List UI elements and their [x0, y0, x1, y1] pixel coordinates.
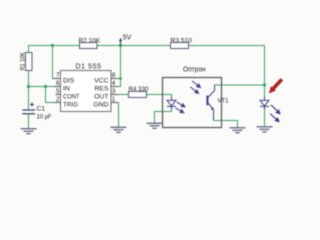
svg-text:3: 3: [112, 88, 116, 95]
node: rail junction at pin7 drop: [51, 44, 54, 47]
wire: R2 right to 5V junction to R3 left: [97, 45, 171, 47]
resistor R4: [129, 86, 149, 98]
wire: C1 bottom to ground: [28, 114, 30, 129]
ground under emitter: [230, 128, 246, 133]
wire: 5V drop to VCC pin8 and RES pin4: [111, 46, 121, 87]
node: R1 bottom junction: [27, 85, 30, 88]
resistor R1: [20, 51, 32, 70]
555 left pin stubs: [54, 79, 61, 103]
svg-text:DIS: DIS: [63, 78, 75, 85]
svg-text:4: 4: [112, 80, 116, 87]
svg-text:5: 5: [56, 88, 60, 95]
resistor R2: [79, 38, 101, 49]
555 timer D1 body: [61, 64, 112, 112]
svg-text:C1: C1: [37, 106, 46, 113]
555 right pin stubs: [111, 79, 118, 103]
LED indicator (pointed by red arrow): [260, 96, 269, 109]
ground under 555 GND pin: [111, 127, 127, 132]
wire: pin7 drop from rail: [53, 46, 61, 79]
svg-text:R4 330: R4 330: [129, 86, 149, 93]
wire: R1 bottom down through node to C1: [28, 71, 30, 111]
wire: optocoupler LED cathode to outside ground: [155, 110, 172, 124]
svg-text:OUT: OUT: [94, 94, 108, 101]
node: pin6/pin2 junction: [44, 85, 47, 88]
svg-text:Оптрон: Оптрон: [183, 64, 206, 73]
555 right pin numbers 8 4 3 1: [112, 72, 116, 103]
right LED emission arrows: [270, 105, 280, 122]
555 left pin names DIS IN CONT TRIG: [63, 78, 80, 109]
wire: top rail left segment from R1 corner to R2: [29, 46, 80, 54]
svg-text:2: 2: [56, 96, 60, 103]
svg-text:VT1: VT1: [218, 97, 229, 104]
wire: pin8 stub to 5V drop: [111, 78, 121, 80]
wire: node to IN pin6: [29, 86, 61, 88]
phototransistor incoming light arrows: [190, 81, 200, 93]
svg-text:CONT: CONT: [63, 94, 80, 101]
transistor VT1 (phototransistor): [207, 85, 214, 121]
svg-text:7: 7: [56, 72, 60, 79]
svg-text:IN: IN: [63, 86, 70, 93]
red annotation arrow pointing at LED: [269, 79, 282, 93]
svg-text:TRIG: TRIG: [63, 102, 78, 109]
wire: node down to TRIG pin2: [46, 87, 61, 103]
svg-text:D1 555: D1 555: [76, 64, 102, 71]
svg-text:R2 10K: R2 10K: [79, 38, 101, 45]
svg-text:RES: RES: [95, 86, 109, 93]
wire: R4 to optocoupler LED anode: [147, 95, 172, 97]
wire: GND pin1 to ground: [111, 103, 119, 128]
555 right pin names VCC RES OUT GND: [93, 78, 109, 109]
ground under right LED: [257, 127, 273, 132]
wire: R3 right to top-right corner down to LED branch: [189, 46, 265, 97]
svg-text:6: 6: [56, 80, 60, 87]
svg-text:VCC: VCC: [94, 78, 108, 85]
capacitor C1: [22, 103, 51, 121]
svg-text:GND: GND: [93, 102, 108, 109]
svg-text:8: 8: [112, 72, 116, 79]
optocoupler U1 box: [163, 64, 222, 127]
power symbol 5V: [119, 35, 132, 46]
node: 5V junction: [119, 44, 122, 47]
svg-text:R3 510: R3 510: [171, 38, 193, 45]
svg-text:5V: 5V: [123, 35, 132, 42]
555 left pin numbers 7 6 5 2: [56, 72, 60, 103]
wire: collector to right branch junction: [215, 84, 265, 86]
resistor R3: [171, 38, 193, 49]
wire: emitter to ground: [214, 121, 238, 128]
svg-text:R1 10K: R1 10K: [20, 51, 27, 70]
wire: OUT pin3 to R4: [111, 94, 129, 96]
wire: right LED cathode to ground: [264, 110, 266, 127]
ground under C1: [21, 129, 37, 134]
ground under optocoupler LED: [147, 123, 163, 128]
svg-text:1: 1: [112, 96, 116, 103]
svg-text:10 µF: 10 µF: [37, 113, 52, 120]
optocoupler LED emission arrows: [176, 102, 185, 113]
node: collector / right LED junction: [263, 83, 266, 86]
node: VCC pin8 junction: [119, 77, 122, 80]
optocoupler LED: [167, 96, 176, 109]
